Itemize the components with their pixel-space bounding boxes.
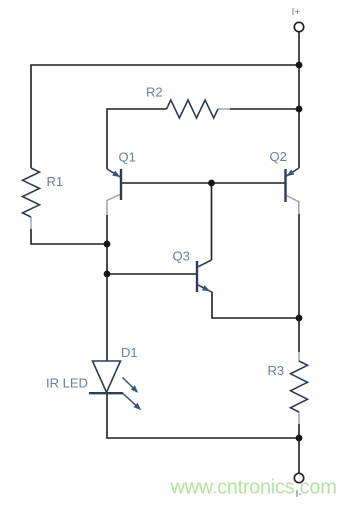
svg-text:Q3: Q3: [173, 249, 190, 264]
svg-text:R1: R1: [47, 174, 64, 189]
svg-text:I-: I-: [296, 488, 303, 500]
svg-text:R2: R2: [146, 85, 163, 100]
svg-text:Q2: Q2: [270, 149, 287, 164]
svg-text:www.cntronics.com: www.cntronics.com: [170, 477, 337, 499]
svg-text:R3: R3: [268, 363, 285, 378]
svg-text:I+: I+: [292, 6, 301, 18]
svg-text:IR LED: IR LED: [46, 376, 88, 391]
svg-text:D1: D1: [121, 345, 138, 360]
svg-text:Q1: Q1: [119, 150, 136, 165]
